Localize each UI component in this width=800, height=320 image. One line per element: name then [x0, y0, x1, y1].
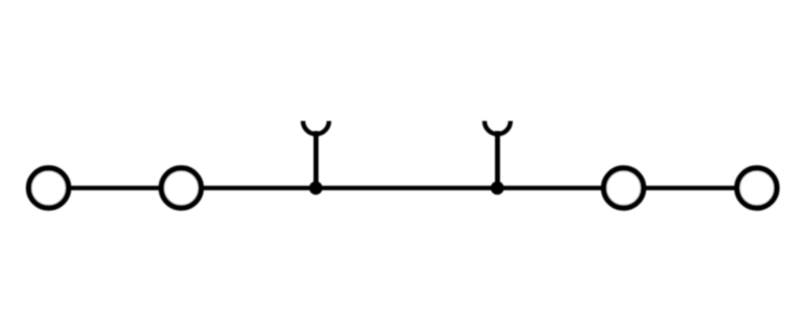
tap fork arc 1 — [303, 121, 329, 134]
wire segment 3 (terminal 3 to terminal 4) — [641, 186, 739, 191]
terminal circle 1 — [29, 168, 69, 208]
tap stem 2 — [495, 131, 500, 188]
wire segment 1 (terminal 1 to terminal 2) — [66, 186, 164, 191]
terminal circle 4 — [737, 168, 777, 208]
tap stem 1 — [314, 131, 319, 188]
junction dot 2 — [491, 181, 504, 194]
terminal circle 3 — [604, 168, 644, 208]
wire segment 2 (terminal 2 to terminal 3 through taps) — [199, 186, 606, 191]
tap fork arc 2 — [485, 121, 511, 134]
junction dot 1 — [309, 181, 322, 194]
terminal circle 2 — [161, 168, 201, 208]
